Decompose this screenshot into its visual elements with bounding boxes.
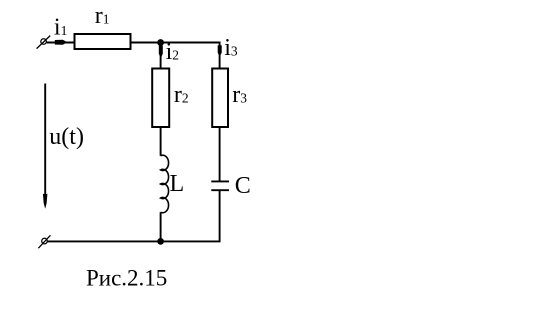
wire node A to corner B [161,42,221,44]
bottom wire [48,240,221,242]
svg-text:C: C [235,173,251,199]
wire L to node C [160,212,162,242]
arrow i1 [55,40,68,45]
wire node A to R2 [160,43,162,68]
wire R1 to node A [132,42,161,44]
wire R3 to capacitor [219,128,221,181]
svg-text:r1: r1 [95,3,110,29]
arrow i3 [218,45,222,56]
wire terminal to R1 [47,42,74,44]
node C junction dot [157,238,164,245]
svg-text:i1: i1 [54,14,67,40]
svg-text:r2: r2 [174,82,189,108]
u(t) arrowhead [43,194,48,209]
svg-text:L: L [170,171,185,197]
bottom terminal [38,235,50,248]
resistor R2 [152,69,169,128]
resistor R1 [75,34,131,49]
wire R2 to L [160,128,162,156]
top terminal [37,36,51,49]
corner wire B down to R3 [219,42,221,68]
resistor R3 [212,69,228,128]
svg-text:Рис.2.15: Рис.2.15 [86,266,167,291]
svg-text:r3: r3 [232,82,247,108]
wire capacitor to bottom corner [219,190,221,242]
inductor L [161,155,169,213]
u(t) source arrow line [44,84,46,197]
arrow i2 [159,45,163,58]
svg-text:i3: i3 [224,35,238,61]
capacitor C [211,181,229,190]
svg-text:u(t): u(t) [49,124,84,150]
node A junction dot [157,39,164,46]
